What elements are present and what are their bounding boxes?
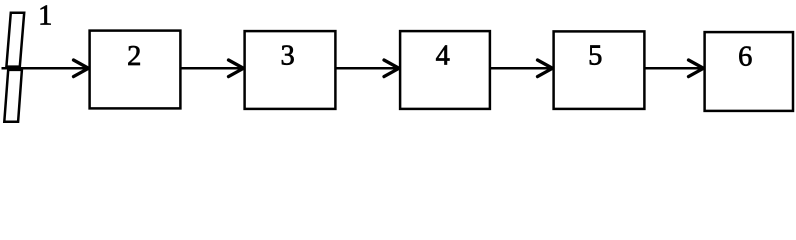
svg-text:6: 6 [738, 41, 752, 72]
svg-text:1: 1 [38, 1, 52, 32]
svg-text:4: 4 [436, 41, 450, 72]
svg-text:2: 2 [127, 41, 141, 72]
svg-text:3: 3 [280, 41, 294, 72]
svg-text:5: 5 [588, 41, 602, 72]
